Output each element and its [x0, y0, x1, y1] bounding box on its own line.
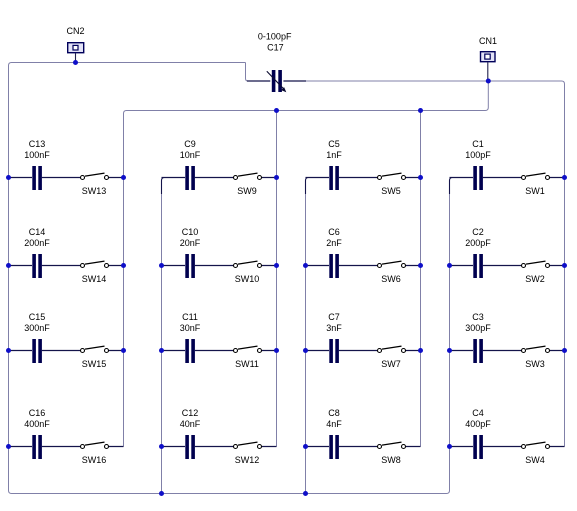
svg-text:SW7: SW7 — [381, 359, 401, 369]
svg-text:C16: C16 — [29, 408, 46, 418]
svg-text:3nF: 3nF — [326, 323, 342, 333]
svg-text:C6: C6 — [328, 227, 340, 237]
svg-text:SW9: SW9 — [237, 186, 257, 196]
svg-text:0-100pF: 0-100pF — [258, 32, 292, 42]
svg-text:C11: C11 — [182, 312, 198, 322]
svg-text:SW12: SW12 — [235, 455, 260, 465]
svg-text:C17: C17 — [267, 43, 284, 53]
svg-text:SW2: SW2 — [525, 274, 545, 284]
svg-text:SW4: SW4 — [525, 455, 545, 465]
svg-text:100pF: 100pF — [465, 150, 491, 160]
svg-text:300nF: 300nF — [24, 323, 50, 333]
svg-text:C9: C9 — [184, 139, 196, 149]
svg-text:400pF: 400pF — [465, 419, 491, 429]
svg-text:C4: C4 — [472, 408, 484, 418]
svg-text:SW14: SW14 — [82, 274, 107, 284]
svg-text:SW13: SW13 — [82, 186, 107, 196]
svg-text:1nF: 1nF — [326, 150, 342, 160]
svg-text:SW5: SW5 — [381, 186, 401, 196]
svg-text:C1: C1 — [472, 139, 484, 149]
svg-text:300pF: 300pF — [465, 323, 491, 333]
svg-text:C10: C10 — [182, 227, 199, 237]
svg-text:30nF: 30nF — [180, 323, 201, 333]
svg-text:C2: C2 — [472, 227, 484, 237]
svg-text:C3: C3 — [472, 312, 484, 322]
svg-text:C14: C14 — [29, 227, 46, 237]
svg-text:SW10: SW10 — [235, 274, 260, 284]
svg-text:200pF: 200pF — [465, 238, 491, 248]
svg-text:40nF: 40nF — [180, 419, 201, 429]
svg-text:400nF: 400nF — [24, 419, 50, 429]
svg-text:SW3: SW3 — [525, 359, 545, 369]
svg-text:C5: C5 — [328, 139, 340, 149]
svg-text:100nF: 100nF — [24, 150, 50, 160]
svg-text:SW16: SW16 — [82, 455, 107, 465]
svg-text:200nF: 200nF — [24, 238, 50, 248]
svg-text:SW1: SW1 — [525, 186, 545, 196]
svg-text:C8: C8 — [328, 408, 340, 418]
svg-text:C15: C15 — [29, 312, 46, 322]
svg-text:CN1: CN1 — [479, 36, 497, 46]
svg-text:C12: C12 — [182, 408, 199, 418]
svg-text:SW8: SW8 — [381, 455, 401, 465]
svg-text:C7: C7 — [328, 312, 340, 322]
svg-text:2nF: 2nF — [326, 238, 342, 248]
svg-text:SW15: SW15 — [82, 359, 107, 369]
svg-text:4nF: 4nF — [326, 419, 342, 429]
svg-text:CN2: CN2 — [66, 26, 84, 36]
svg-text:SW6: SW6 — [381, 274, 401, 284]
svg-text:SW11: SW11 — [235, 359, 259, 369]
svg-text:20nF: 20nF — [180, 238, 201, 248]
svg-text:10nF: 10nF — [180, 150, 201, 160]
svg-text:C13: C13 — [29, 139, 46, 149]
